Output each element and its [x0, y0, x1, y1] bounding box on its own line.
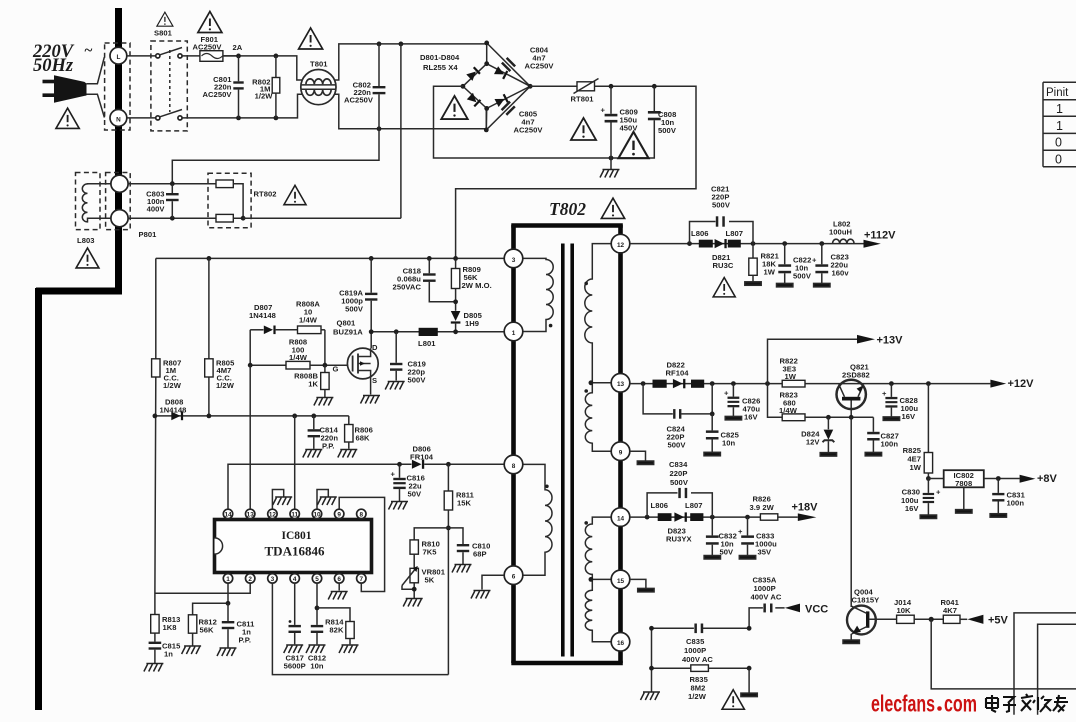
- warning triangle below L803: [76, 248, 99, 268]
- capacitor C810: [448, 528, 463, 544]
- resistor R041: [943, 615, 960, 623]
- svg-text:56K: 56K: [200, 626, 215, 635]
- diode D807: [250, 329, 263, 331]
- wire base rail 417: [828, 416, 873, 418]
- warning triangle right of RT802: [284, 185, 306, 204]
- switch mechanical link dashed: [169, 50, 171, 112]
- wire bridge plus to RT801: [530, 85, 577, 87]
- hot ground C815: [144, 664, 164, 672]
- svg-text:1W: 1W: [764, 268, 776, 277]
- C835 loop left vertical: [651, 628, 653, 691]
- svg-text:P.P.: P.P.: [239, 636, 252, 645]
- wire pin3 feedback loop: [272, 583, 448, 675]
- wire pin9 pin7 link: [339, 497, 384, 591]
- connector P801 dashed box: [106, 173, 131, 230]
- resistor R812: [188, 615, 196, 633]
- RT802 top resistor: [216, 180, 233, 188]
- output arrow +112V: [864, 240, 881, 248]
- wire bridge minus to rail: [434, 86, 655, 158]
- svg-text:50V: 50V: [408, 490, 423, 499]
- ferrite bead right of D822: [691, 380, 704, 388]
- svg-text:AC250V: AC250V: [202, 90, 232, 99]
- bridge outer diagonal with C804: [487, 43, 531, 86]
- T802 pin 8: [504, 455, 523, 474]
- svg-text:5K: 5K: [425, 576, 435, 585]
- junction dot C831: [996, 476, 1001, 481]
- watermark elecfans.com: [871, 691, 977, 717]
- svg-text:+: +: [391, 470, 396, 479]
- T802 secondary winding 12-13: [585, 244, 612, 383]
- svg-text:D801-D804: D801-D804: [420, 53, 460, 62]
- IC801 top pin 12: [268, 509, 277, 518]
- junction dots C801/R802: [236, 54, 241, 59]
- svg-text:C834: C834: [669, 460, 688, 469]
- hot ground VR801: [403, 599, 423, 607]
- svg-text:3: 3: [271, 576, 275, 583]
- svg-text:14: 14: [224, 511, 232, 518]
- svg-text:4: 4: [293, 576, 297, 583]
- resistor R810: [410, 540, 418, 554]
- svg-text:+: +: [882, 389, 887, 398]
- svg-text:400V AC: 400V AC: [682, 655, 713, 664]
- capacitor C826 electrolytic: [732, 384, 734, 397]
- output arrow +8V: [1020, 475, 1036, 483]
- hot ground C835 loop: [641, 692, 661, 700]
- T802 pin 12: [611, 234, 630, 253]
- svg-text:+112V: +112V: [864, 230, 896, 242]
- warning triangle below plug: [56, 108, 79, 128]
- cold ground C832: [704, 556, 720, 560]
- cold ground IC802: [956, 510, 972, 513]
- svg-text:TDA16846: TDA16846: [265, 544, 325, 559]
- P801 top circle: [111, 175, 128, 192]
- capacitor C821 bypass loop: [690, 222, 754, 244]
- svg-text:15: 15: [617, 578, 625, 585]
- wire switch to fuse: [182, 55, 239, 57]
- resistor R823: [768, 384, 783, 418]
- wire C802 bottom to degauss net: [172, 129, 379, 184]
- capacitor C818: [428, 258, 430, 273]
- wire N side to T801: [182, 94, 302, 118]
- IC801 bottom pin 6: [335, 574, 344, 583]
- svg-text:T801: T801: [310, 60, 328, 69]
- wire to R810: [414, 528, 448, 540]
- junction dot pin1: [226, 601, 231, 606]
- svg-text:16V: 16V: [905, 504, 920, 513]
- bridge rectifier D801-D804 diamond: [463, 43, 530, 130]
- capacitor C819A: [370, 258, 372, 292]
- ferrite bead left of D822: [653, 380, 667, 388]
- capacitor C835A VCC coupling: [749, 608, 785, 628]
- transistor Q821: [837, 380, 866, 409]
- cold ground C833: [739, 556, 755, 560]
- junction dots C802: [377, 42, 382, 47]
- IC802 ground lead: [963, 487, 965, 509]
- svg-text:IC801: IC801: [281, 530, 311, 542]
- hot ground C811: [217, 648, 237, 656]
- warning triangle right of T802 label: [601, 198, 624, 218]
- switch contact top: [156, 54, 160, 58]
- diode D804 lower-right: [494, 94, 508, 107]
- svg-text:+: +: [724, 389, 729, 398]
- resistor R808: [250, 364, 286, 366]
- capacitor C816 electrolytic: [399, 464, 401, 478]
- diode D803 lower-left: [467, 93, 481, 107]
- wire B+ rail 258: [156, 257, 505, 259]
- wire fuse to T801 (L side): [223, 56, 302, 80]
- wire T802 pin15 to ground: [630, 579, 646, 588]
- capacitor C804: [501, 57, 516, 72]
- svg-text:2A: 2A: [233, 43, 243, 52]
- inductor L802: [833, 239, 855, 243]
- svg-text:3: 3: [512, 257, 516, 264]
- capacitor C830 electrolytic: [927, 479, 929, 493]
- left startup rail: [154, 258, 157, 614]
- svg-text:Q801: Q801: [337, 319, 357, 328]
- svg-text:50Hz: 50Hz: [33, 56, 74, 76]
- warning triangle above S801: [157, 12, 173, 26]
- svg-text:10K: 10K: [897, 606, 912, 615]
- svg-text:1K: 1K: [308, 380, 318, 389]
- svg-text:15K: 15K: [457, 499, 472, 508]
- svg-text:Pinit: Pinit: [1046, 87, 1069, 99]
- resistor R822: [782, 380, 805, 387]
- svg-text:AC250V: AC250V: [193, 43, 223, 52]
- resistor J014: [897, 615, 915, 623]
- svg-text:L807: L807: [726, 229, 744, 238]
- svg-text:12V: 12V: [806, 438, 821, 447]
- cold ground pin9: [637, 461, 653, 465]
- hot ground R812: [182, 646, 202, 654]
- junction dot C816: [397, 462, 402, 467]
- svg-text:RT801: RT801: [571, 95, 595, 104]
- P801 bottom circle: [111, 210, 128, 227]
- svg-text:12: 12: [269, 511, 277, 518]
- wire P801 bottom rail: [128, 217, 216, 219]
- inductor L801: [419, 328, 438, 336]
- svg-text:L: L: [116, 54, 120, 61]
- svg-text:~: ~: [84, 43, 93, 59]
- T802 aux winding pins 8-6: [523, 464, 552, 575]
- resistor R809: [455, 258, 457, 268]
- switch contact bottom: [156, 116, 160, 120]
- svg-text:500V: 500V: [670, 478, 689, 487]
- diode D808: [171, 412, 180, 421]
- junction dots C835 loop: [649, 626, 654, 631]
- resistor R811: [447, 464, 449, 491]
- cold ground C822: [777, 283, 793, 287]
- capacitor C828 electrolytic: [890, 384, 892, 397]
- hot ground C814: [303, 450, 323, 458]
- resistor R826: [760, 514, 777, 520]
- hot ground C812: [306, 645, 326, 653]
- svg-text:+: +: [738, 527, 743, 536]
- svg-text:VCC: VCC: [805, 604, 828, 616]
- capacitor C802: [378, 44, 380, 86]
- wire IC802 out: [984, 478, 1020, 480]
- svg-text:P801: P801: [139, 230, 158, 239]
- capacitor C823 electrolytic: [821, 244, 823, 265]
- hot ground C810: [452, 565, 472, 573]
- arrow +5V: [967, 615, 983, 624]
- capacitor C817: [294, 583, 296, 625]
- wire T802 pin9 to ground: [630, 451, 646, 461]
- IC801 bottom pin 2: [246, 574, 255, 583]
- svg-text:6: 6: [512, 574, 516, 581]
- svg-text:68K: 68K: [356, 434, 371, 443]
- cold ground C826: [725, 416, 741, 420]
- svg-text:400V: 400V: [147, 205, 166, 214]
- wire L to switch: [127, 55, 156, 57]
- junction dots rail 417: [826, 415, 831, 420]
- IC801 top pin 13: [246, 509, 255, 518]
- svg-text:1/4W: 1/4W: [779, 406, 798, 415]
- svg-text:+: +: [936, 488, 941, 497]
- fuse F801 labels: [193, 35, 243, 52]
- svg-text:+: +: [812, 256, 817, 265]
- wire T802 pin6 to ground: [482, 575, 504, 589]
- svg-text:+8V: +8V: [1037, 473, 1058, 485]
- hot ground at rail: [610, 158, 612, 169]
- diode D801 upper-left: [466, 67, 480, 81]
- T802 secondary winding 13-9: [585, 383, 611, 451]
- cold ground pin15: [638, 588, 654, 592]
- capacitor C815: [149, 642, 162, 644]
- wire drain rail 332: [371, 331, 504, 333]
- wire pin1 net 603: [193, 583, 228, 615]
- pin13 drive vertical: [249, 365, 251, 509]
- svg-text:S: S: [372, 376, 377, 385]
- svg-text:500V: 500V: [408, 376, 427, 385]
- chassis corner line inner: [1038, 624, 1076, 714]
- IC801 bottom pin 5: [312, 574, 321, 583]
- svg-text:10n: 10n: [310, 662, 324, 671]
- hot ground C816: [389, 502, 409, 510]
- svg-text:AC250V: AC250V: [524, 62, 554, 71]
- diode D806: [412, 460, 422, 469]
- wire T801 to top rail: [335, 44, 487, 80]
- output arrow +13V: [857, 335, 875, 344]
- svg-text:0: 0: [1055, 136, 1062, 150]
- svg-text:com: com: [944, 691, 977, 717]
- svg-text:+18V: +18V: [792, 502, 819, 514]
- svg-text:6: 6: [337, 576, 341, 583]
- svg-text:C1815Y: C1815Y: [852, 596, 880, 605]
- junction dots B+ rail: [609, 84, 614, 89]
- svg-text:S801: S801: [154, 29, 173, 38]
- junction dot R811: [446, 462, 451, 467]
- svg-text:9: 9: [619, 450, 623, 457]
- svg-text:14: 14: [617, 516, 625, 523]
- svg-text:1n: 1n: [164, 650, 173, 659]
- T802 pin 13: [611, 374, 630, 393]
- svg-text:elecfans: elecfans: [871, 691, 935, 717]
- capacitor C803: [171, 184, 173, 193]
- svg-text:100uH: 100uH: [829, 228, 852, 237]
- junction dot IC802 in: [926, 476, 931, 481]
- resistor R821: [752, 244, 754, 259]
- resistor R813: [151, 615, 159, 634]
- resistor R825: [927, 384, 929, 453]
- wire pin12 to ground: [272, 490, 283, 510]
- wire pin12 output rail 243: [630, 243, 864, 245]
- svg-text:N: N: [116, 116, 121, 123]
- svg-text:500V: 500V: [793, 272, 812, 281]
- svg-text:7K5: 7K5: [423, 548, 438, 557]
- junction dot VR801: [412, 587, 417, 592]
- svg-text:D: D: [372, 343, 378, 352]
- terminal N: [110, 110, 127, 127]
- svg-text:12: 12: [617, 242, 625, 249]
- bridge labels: [420, 53, 460, 72]
- RT802 bottom resistor: [216, 214, 233, 222]
- wire +13V branch: [768, 339, 858, 383]
- svg-text:L801: L801: [418, 339, 436, 348]
- svg-text:RU3C: RU3C: [713, 261, 734, 270]
- wire pin10 to ground: [317, 490, 328, 510]
- cold ground right loop: [741, 693, 757, 697]
- svg-text:+5V: +5V: [988, 615, 1009, 627]
- svg-text:8: 8: [360, 511, 364, 518]
- L803 coil: [82, 184, 111, 222]
- MOSFET Q801: [347, 348, 378, 379]
- switch S801 dashed box: [151, 41, 187, 131]
- resistor R814: [317, 608, 350, 622]
- svg-text:3.9 2W: 3.9 2W: [750, 503, 775, 512]
- diode D802 upper-right: [494, 66, 508, 79]
- junction dot C825: [710, 412, 715, 417]
- svg-text:10: 10: [313, 511, 321, 518]
- svg-text:35V: 35V: [758, 548, 773, 557]
- svg-text:1H9: 1H9: [465, 319, 479, 328]
- capacitor C808: [653, 86, 655, 111]
- connector P800 L/N dashed box: [105, 43, 130, 130]
- hot ground C819: [385, 382, 405, 390]
- capacitor C822: [784, 244, 786, 265]
- svg-text:C835: C835: [686, 637, 705, 646]
- svg-text:8: 8: [512, 463, 516, 470]
- svg-text:250VAC: 250VAC: [393, 283, 422, 292]
- trimmer VR801: [410, 568, 418, 583]
- capacitor C814: [313, 416, 315, 429]
- svg-text:500V: 500V: [345, 305, 364, 314]
- capacitor C805: [501, 101, 516, 116]
- T802 primary winding pins 3-1: [523, 258, 554, 331]
- wire plug to N: [87, 94, 105, 117]
- svg-text:7808: 7808: [955, 479, 972, 488]
- svg-text:7: 7: [360, 576, 364, 583]
- svg-text:1: 1: [512, 330, 516, 337]
- capacitor C833 electrolytic: [747, 517, 749, 535]
- hot ground pin10: [317, 497, 337, 505]
- svg-text:450V: 450V: [620, 124, 639, 133]
- hot ground pin12: [273, 497, 293, 505]
- svg-text:1N4148: 1N4148: [160, 406, 187, 415]
- IC801 bottom pin 7: [357, 574, 366, 583]
- inductor L806 secondary: [658, 513, 672, 521]
- svg-text:13: 13: [617, 381, 625, 388]
- svg-text:13: 13: [247, 511, 255, 518]
- warning triangle above rail ground: [619, 132, 649, 158]
- junction dot pin5: [315, 606, 320, 611]
- junction dot winding at pin13: [589, 380, 594, 385]
- wire RT802 to N branch: [243, 217, 401, 219]
- junction dots drain rail: [369, 329, 374, 334]
- wire pin5: [316, 583, 318, 625]
- junction dot R810/C810: [446, 526, 451, 531]
- junction dots rail 258: [207, 256, 212, 261]
- svg-text:L806: L806: [651, 501, 669, 510]
- T802 pin 1: [504, 322, 523, 341]
- polarity dot winding 8-6: [545, 485, 549, 489]
- svg-text:1000P: 1000P: [684, 646, 706, 655]
- gate loop left vertical: [249, 330, 251, 365]
- T802 pin 6: [504, 566, 523, 585]
- junction dots rail 517: [645, 515, 650, 520]
- fuse F801: [200, 51, 223, 62]
- C835 loop right vertical to ground: [748, 668, 750, 693]
- wire pin14 rail 517: [630, 516, 798, 518]
- svg-text:4K7: 4K7: [943, 606, 957, 615]
- C805 labels: [513, 110, 543, 135]
- wire pin11 vertical: [294, 416, 296, 509]
- svg-text:RT802: RT802: [254, 190, 277, 199]
- wire plug to L: [87, 57, 105, 83]
- inductor L807 secondary: [690, 513, 703, 521]
- svg-text:50V: 50V: [720, 548, 735, 557]
- resistor R807: [152, 359, 160, 377]
- hot ground Q801 source: [361, 396, 381, 404]
- IC801 bottom pin 1: [223, 574, 232, 583]
- resistor R802: [275, 56, 277, 78]
- svg-text:RF104: RF104: [666, 369, 690, 378]
- junction dots gate loop: [248, 363, 253, 368]
- wire T801 to bottom AC rail: [335, 94, 487, 129]
- zener D824: [827, 417, 829, 429]
- RT802 internal wire: [233, 184, 243, 218]
- diode D822: [673, 379, 683, 388]
- arrow VCC: [785, 604, 800, 613]
- C804 labels: [524, 46, 554, 71]
- svg-text:16V: 16V: [902, 412, 917, 421]
- output arrow +12V: [990, 380, 1006, 388]
- wire Q821 emitter to Q004: [850, 417, 852, 607]
- mains cable thick bar: [36, 8, 122, 710]
- T802 secondary winding 15-16: [585, 579, 611, 641]
- line filter T801: [301, 70, 336, 105]
- hot ground R808B: [314, 398, 334, 406]
- IC801 body: [215, 520, 372, 573]
- svg-text:BUZ91A: BUZ91A: [333, 328, 363, 337]
- cold ground C830: [920, 515, 936, 519]
- capacitor C832: [711, 517, 713, 535]
- svg-text:10n: 10n: [722, 439, 736, 448]
- capacitor C835 snubber: [652, 627, 750, 629]
- hot ground R814: [339, 645, 359, 653]
- svg-text:2: 2: [248, 576, 252, 583]
- label 220V 50Hz: [32, 42, 93, 76]
- cold ground C827: [865, 452, 881, 456]
- warning triangle below RT801: [571, 118, 596, 140]
- svg-text:RL255 X4: RL255 X4: [423, 63, 458, 72]
- hot ground pin6: [328, 592, 348, 600]
- T802 secondary winding 14-15: [585, 517, 611, 579]
- svg-text:P.P.: P.P.: [322, 442, 335, 451]
- transformer T802 frame: [511, 225, 623, 663]
- capacitor C819: [395, 332, 397, 363]
- IC801 top pin 10: [312, 509, 321, 518]
- svg-text:1/4W: 1/4W: [289, 353, 308, 362]
